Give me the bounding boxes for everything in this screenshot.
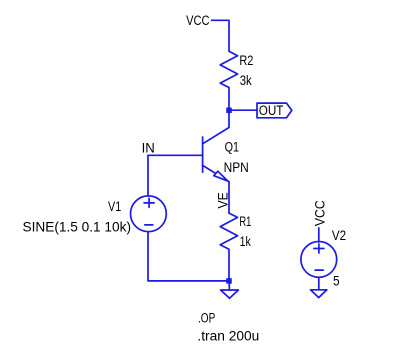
resistor R2 [220, 51, 237, 110]
wire V1 top [147, 155, 149, 196]
R1 designator label [239, 214, 251, 229]
svg-text:3k: 3k [240, 73, 252, 88]
svg-text:1k: 1k [240, 234, 251, 249]
spice directive .OP [198, 310, 215, 325]
R2 designator label [239, 53, 253, 68]
svg-text:IN: IN [142, 140, 155, 155]
net label VCC (V2, rotated) [313, 200, 328, 226]
voltage source V2 [301, 242, 337, 278]
wire junction to ground [228, 284, 230, 290]
wire emitter to R1 [228, 182, 230, 213]
ground symbol (main) [221, 290, 239, 298]
Q1 collector lead [203, 110, 229, 144]
svg-text:V2: V2 [332, 228, 346, 243]
wire V2 bottom to ground [318, 277, 320, 290]
wire VCC to R2 top [212, 20, 230, 51]
V2 designator label [332, 228, 346, 243]
R2 value label 3k [240, 73, 252, 88]
junction emitter ground node [226, 278, 232, 284]
svg-text:R1: R1 [239, 214, 251, 229]
wire junction to OUT flag [231, 109, 257, 111]
svg-text:SINE(1.5 0.1 10k): SINE(1.5 0.1 10k) [23, 219, 132, 234]
spice directive .tran 200u [197, 329, 259, 344]
Q1 emitter with arrow [203, 165, 229, 181]
Q1 designator label [225, 139, 239, 154]
svg-text:VCC: VCC [186, 13, 210, 28]
transistor Q1 (NPN) [203, 110, 229, 181]
svg-text:5: 5 [333, 274, 340, 289]
Q1 value label NPN [224, 160, 249, 175]
V1 designator label [108, 199, 121, 214]
wire V2 top [318, 228, 320, 242]
net label IN [142, 140, 155, 155]
net label VCC (top) [186, 13, 210, 28]
R1 value label 1k [240, 234, 251, 249]
svg-text:V1: V1 [108, 199, 121, 214]
svg-text:R2: R2 [239, 53, 253, 68]
junction collector node [226, 108, 232, 114]
V1 value label SINE [23, 219, 132, 234]
svg-text:VCC: VCC [313, 200, 328, 226]
resistor R1 [220, 213, 237, 281]
wire V1 bottom to ground node [148, 232, 229, 281]
voltage source V1 [131, 196, 167, 232]
svg-text:.OP: .OP [198, 310, 215, 325]
svg-text:OUT: OUT [259, 103, 284, 118]
net flag OUT [257, 103, 292, 118]
svg-text:NPN: NPN [224, 160, 249, 175]
net label VE (rotated) [216, 192, 231, 208]
svg-text:.tran 200u: .tran 200u [197, 329, 259, 344]
wire base IN [148, 154, 203, 156]
Q1 base bar [202, 137, 204, 172]
svg-text:Q1: Q1 [225, 139, 239, 154]
V2 value label 5 [333, 274, 340, 289]
ground symbol (V2) [311, 290, 327, 298]
